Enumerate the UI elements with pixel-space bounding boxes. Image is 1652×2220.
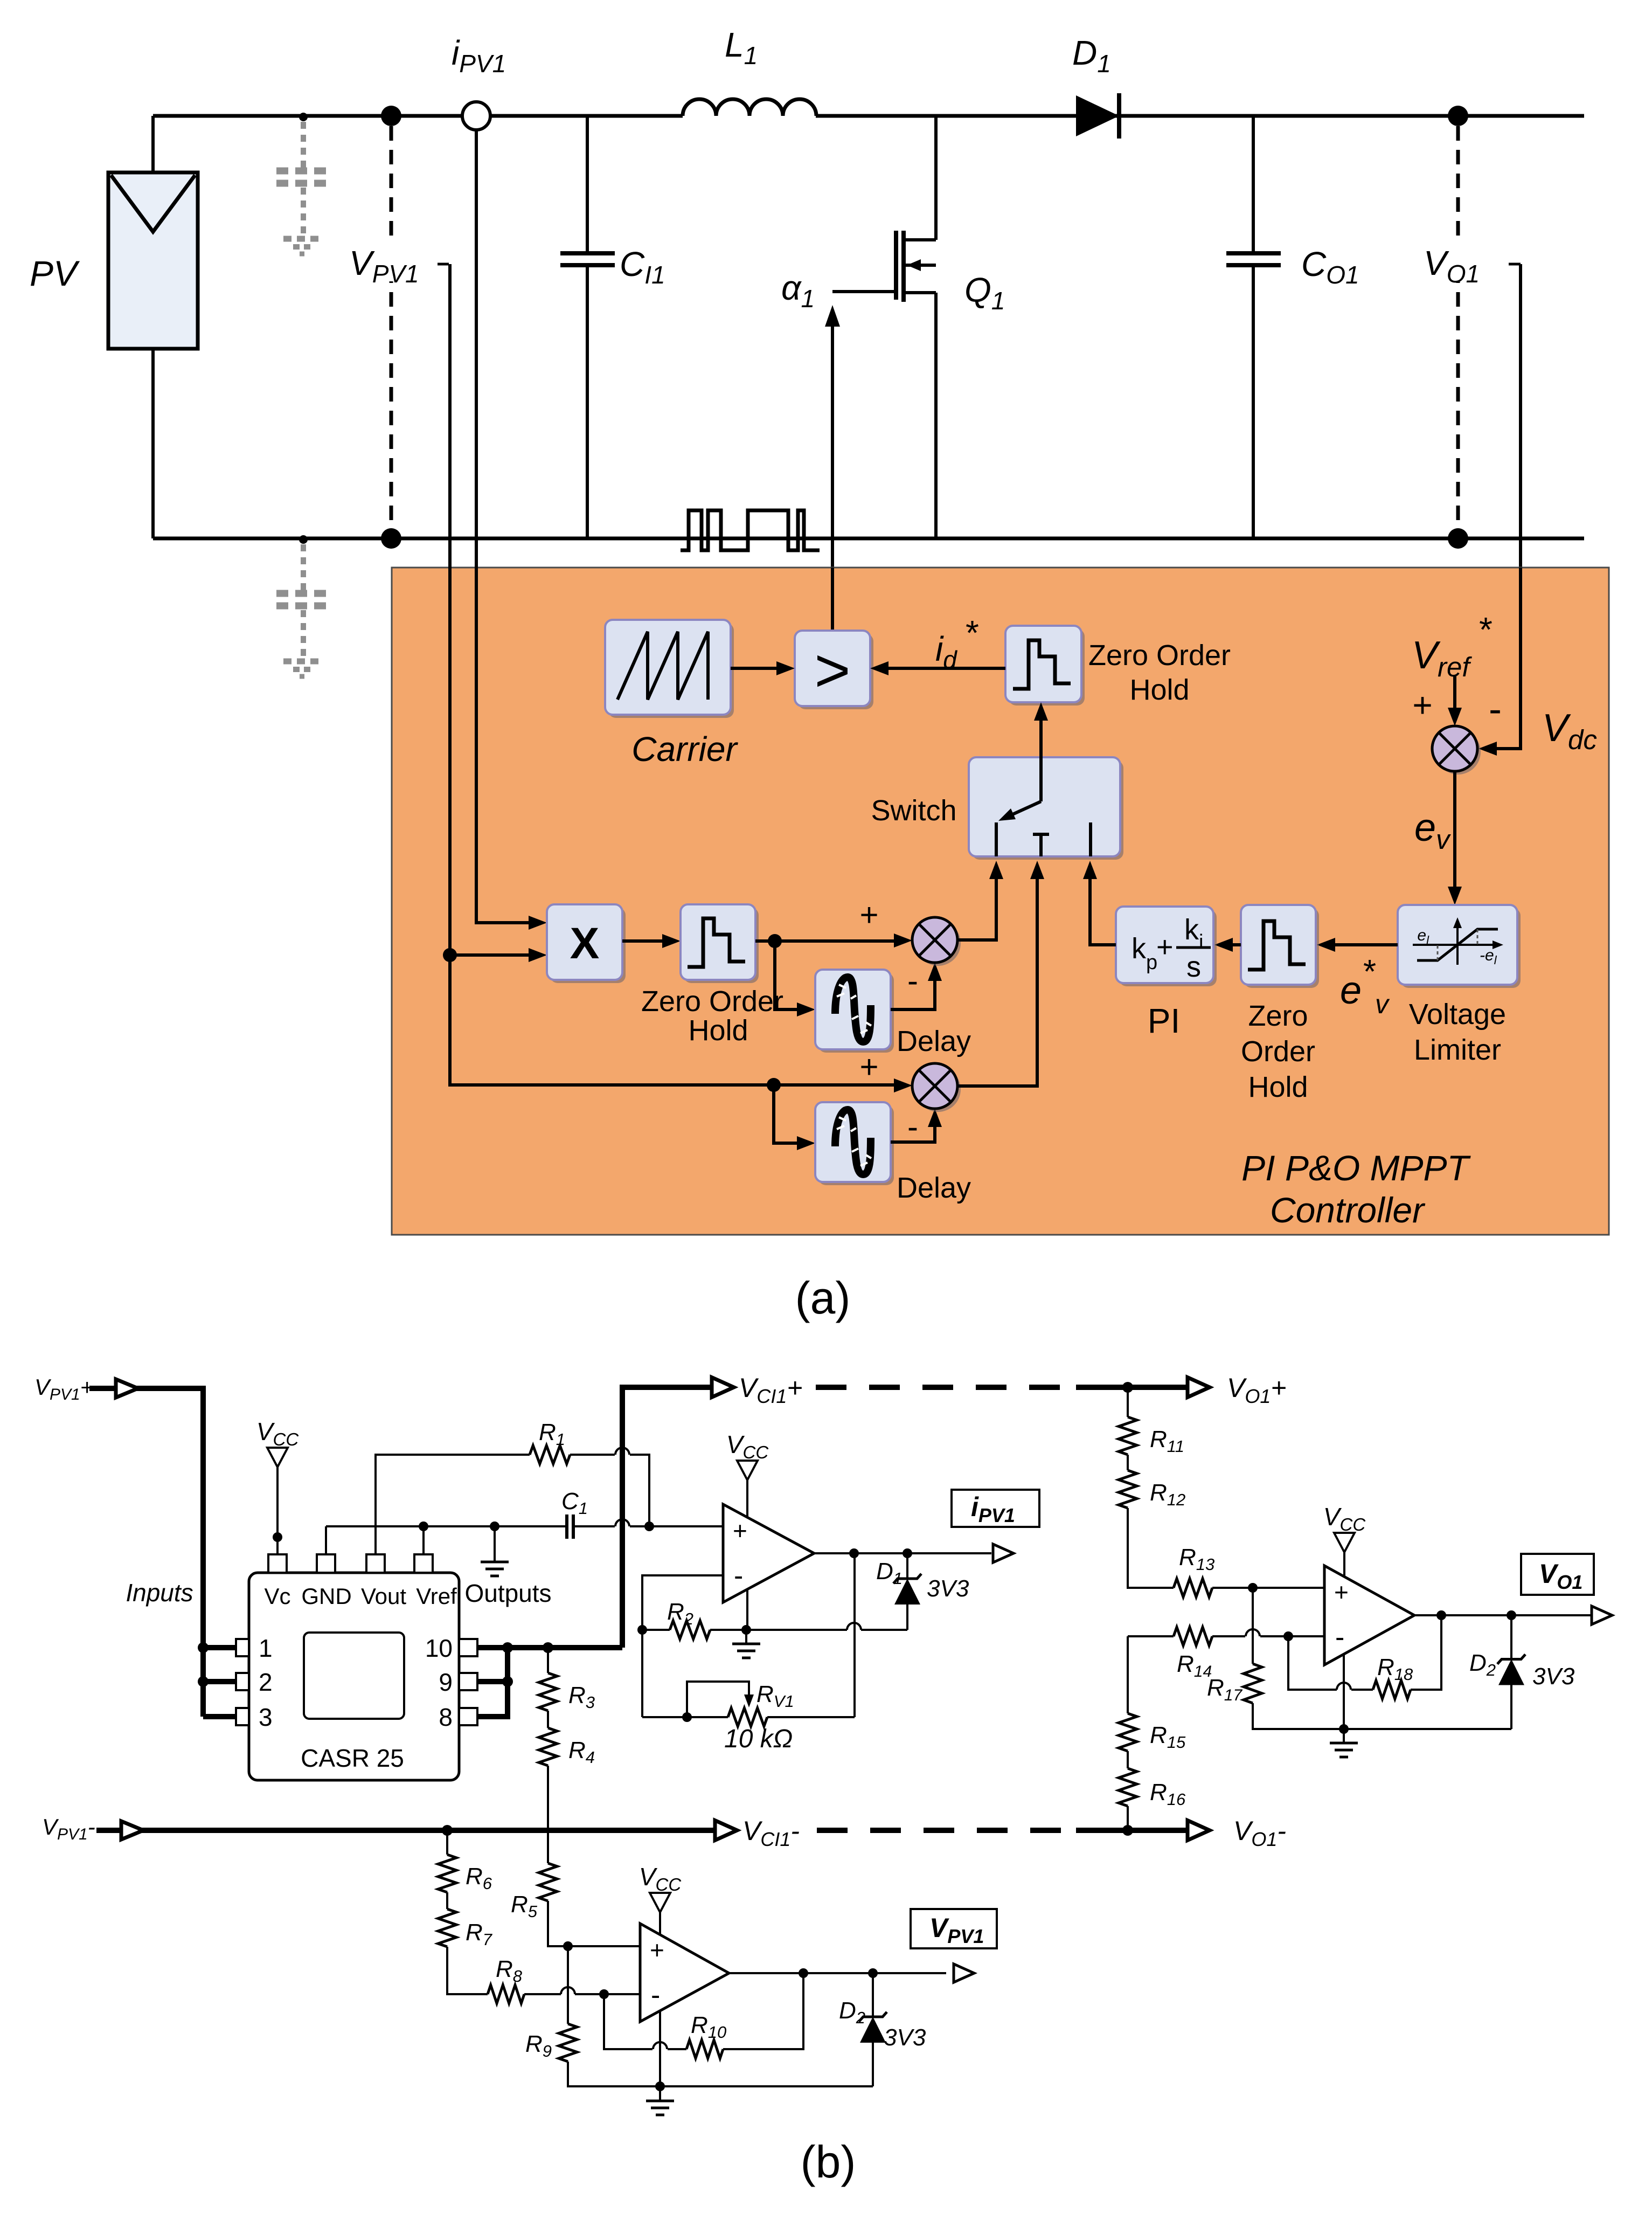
resistor R7 (438, 1909, 456, 1947)
wire C1 to + node (573, 1519, 649, 1526)
label alpha1 (781, 268, 815, 313)
svg-text:+: + (1156, 931, 1174, 963)
parasitic capacitance to ground (bottom, grey dashed) (276, 535, 330, 676)
label i_d* (935, 613, 979, 674)
input arrow V_PV1+ (116, 1379, 138, 1398)
label D1 (1072, 33, 1111, 78)
svg-text:*: * (1363, 953, 1376, 991)
label V_ref* (1412, 610, 1493, 682)
wire + node to opamp3 (1253, 1587, 1324, 1589)
svg-text:VPV1-: VPV1- (42, 1814, 95, 1843)
svg-text:R15: R15 (1150, 1722, 1186, 1752)
label V_O1 (1421, 243, 1521, 288)
label R18 (1377, 1654, 1413, 1684)
label i_PV1 (452, 33, 506, 78)
ground symbol (opamp3) (1330, 1729, 1358, 1757)
label R3 (568, 1682, 595, 1712)
resistor R13 (1174, 1579, 1212, 1597)
resistor R12 (1119, 1470, 1137, 1508)
svg-text:Carrier: Carrier (631, 730, 738, 769)
label V_PV1 (348, 243, 449, 288)
label R9 (525, 2031, 552, 2060)
label 3V3 (V_PV1 clamp) (884, 2024, 926, 2051)
resistor R5 (539, 1863, 557, 1901)
wire R14 line (1128, 1635, 1174, 1637)
svg-text:+: + (1334, 1578, 1349, 1606)
IC pin box Vref (414, 1554, 433, 1573)
wire Vcc to opamp2 (659, 1912, 661, 1935)
label V_PV1- (42, 1814, 95, 1843)
wire summer to limiter (e_v) (1448, 771, 1462, 905)
svg-text:GND: GND (301, 1583, 351, 1609)
Vcc symbol (opamp3) (1323, 1503, 1366, 1552)
caption (a) (795, 1272, 851, 1323)
wire R13 to + node (1212, 1587, 1253, 1589)
wire delay1 to summer1 minus (891, 963, 942, 1009)
svg-text:8: 8 (439, 1703, 453, 1731)
node opamp2 - junction (599, 1989, 609, 1999)
IC pin box 8 (459, 1708, 477, 1725)
label L1 (725, 25, 758, 70)
svg-text:-: - (907, 963, 918, 999)
svg-text:VCI1-: VCI1- (742, 1816, 800, 1850)
RV1 wiper loop (687, 1682, 754, 1717)
summer circle 1 (912, 917, 961, 966)
wire to delay 1 (775, 941, 815, 1016)
svg-text:VCC: VCC (639, 1863, 682, 1894)
wire top rail (153, 114, 1584, 118)
resistor R16 (1119, 1768, 1137, 1806)
label R11 (1150, 1426, 1184, 1456)
label R5 (511, 1891, 538, 1921)
label D2 (V_O1 clamp) (1469, 1650, 1496, 1679)
label Delay 1 (897, 1025, 971, 1057)
output arrow V_CI1- (715, 1821, 737, 1841)
wire R3-R4 (547, 1711, 549, 1728)
svg-text:k: k (1132, 932, 1147, 965)
inductor L1 (683, 99, 816, 116)
label D2 (V_PV1 clamp) (839, 1997, 865, 2027)
wire R18 to output (1411, 1615, 1441, 1690)
svg-text:R9: R9 (525, 2031, 552, 2060)
wire V_O1- solid (1076, 1828, 1186, 1833)
label R10 (691, 2012, 726, 2042)
node pin9 junction (502, 1676, 513, 1687)
wire PI to switch (1083, 861, 1116, 945)
labels pin numbers (259, 1634, 453, 1731)
svg-text:(b): (b) (801, 2136, 856, 2187)
svg-text:9: 9 (439, 1668, 453, 1696)
svg-text:3V3: 3V3 (1532, 1663, 1575, 1690)
switch block (969, 757, 1123, 860)
output arrow i_PV1 signal (993, 1544, 1014, 1562)
wire + node to opamp1 (649, 1525, 723, 1527)
svg-text:R16: R16 (1150, 1779, 1186, 1809)
svg-text:VO1-: VO1- (1233, 1816, 1286, 1850)
wire GND node line (326, 1525, 567, 1527)
IC pin box 10 (459, 1639, 477, 1656)
potentiometer RV1 (687, 1708, 855, 1726)
wire R10 to output (723, 1973, 803, 2049)
label Q1 (964, 271, 1005, 315)
svg-text:D2: D2 (1469, 1650, 1496, 1679)
wire opamp1 output (814, 1552, 991, 1554)
label Vc GND Vout Vref (264, 1583, 457, 1609)
label CO1 (1301, 245, 1359, 289)
node VO1+ junction (1448, 106, 1468, 126)
wire opamp3 V- to ground (1343, 1655, 1345, 1729)
wire R2 to ground node (710, 1629, 744, 1631)
wire - node to R18 (1288, 1636, 1373, 1690)
svg-text:Delay: Delay (897, 1172, 971, 1204)
svg-text:10 kΩ: 10 kΩ (724, 1725, 793, 1753)
wire R11 top (1127, 1387, 1129, 1417)
svg-text:3V3: 3V3 (884, 2024, 926, 2051)
svg-text:Zero: Zero (1248, 1000, 1308, 1032)
wire R9 to ground rail (568, 2062, 873, 2086)
node VO1- junction (1448, 528, 1468, 549)
label Zero Order Hold (power) (641, 985, 783, 1047)
svg-text:VCC: VCC (1323, 1503, 1366, 1534)
i_PV1 signal box (952, 1490, 1039, 1527)
carrier generator block (605, 620, 734, 718)
svg-text:k: k (1184, 914, 1199, 946)
ground symbol (opamp1) (732, 1630, 760, 1658)
node PV+ junction (381, 106, 401, 126)
svg-text:3: 3 (259, 1703, 273, 1731)
node ZOH output junction (768, 934, 782, 948)
resistor R14 (1174, 1627, 1212, 1645)
wire R11-R12 (1127, 1455, 1129, 1470)
svg-text:(a): (a) (795, 1272, 851, 1323)
resistor R18 (1373, 1680, 1411, 1699)
svg-text:Controller: Controller (1270, 1190, 1426, 1230)
node output junction A (799, 1968, 808, 1978)
svg-text:-: - (907, 1109, 918, 1145)
svg-text:D2: D2 (839, 1997, 865, 2027)
node opamp1 ground junction (741, 1625, 751, 1635)
label PI P&O MPPT Controller (1241, 1148, 1471, 1230)
wire - node to opamp3 (1288, 1635, 1324, 1637)
svg-text:Vc: Vc (264, 1583, 290, 1609)
svg-text:D1: D1 (1072, 33, 1111, 78)
wire R17 to ground rail (1253, 1703, 1511, 1729)
zero-order-hold block (power) (681, 904, 759, 983)
svg-text:Limiter: Limiter (1414, 1034, 1501, 1066)
svg-text:3V3: 3V3 (927, 1575, 969, 1602)
wire opamp1 - input (642, 1575, 723, 1717)
wire R4 to R5 (crosses V_CI1-) (547, 1766, 549, 1863)
label PV (30, 253, 80, 293)
ground symbol (C1 node) (481, 1526, 509, 1576)
wire Vref pin riser (422, 1526, 425, 1554)
svg-text:VO1+: VO1+ (1227, 1373, 1287, 1407)
label D1 (i_PV1 clamp) (876, 1558, 903, 1588)
wire PV to bottom rail (151, 347, 155, 538)
svg-text:VCI1+: VCI1+ (739, 1373, 803, 1407)
op-amp U1 (i_PV1) (723, 1504, 814, 1602)
ground symbol (opamp2) (646, 2086, 674, 2115)
label Zero Order Hold (top) (1088, 639, 1231, 706)
svg-text:+: + (650, 1936, 664, 1964)
PI P&O MPPT controller box (392, 568, 1609, 1235)
switch lever and contacts (996, 801, 1091, 856)
label PI (1148, 1001, 1180, 1040)
solar panel PV (108, 172, 198, 349)
svg-text:-: - (1489, 688, 1502, 731)
resistor R3 (539, 1673, 557, 1711)
zener diode D2 (V_O1 clamp) (1497, 1615, 1525, 1729)
wire Vcc to opamp1 (746, 1480, 748, 1518)
label V_PV1+ (34, 1374, 93, 1403)
transistor Q1 source wire (934, 293, 938, 538)
svg-text:L1: L1 (725, 25, 758, 70)
svg-text:RV1: RV1 (756, 1681, 794, 1711)
label R14 (1177, 1651, 1212, 1680)
node opamp3 - junction (1283, 1631, 1293, 1641)
label CASR 25 (301, 1744, 404, 1772)
node Vref junction (419, 1522, 428, 1531)
label R1 (539, 1419, 565, 1449)
svg-text:+: + (859, 897, 878, 933)
label e_v (1414, 806, 1451, 855)
node opamp3 + junction (1248, 1583, 1258, 1593)
wire carrier to comparator (731, 661, 795, 675)
resistor R9 (559, 2024, 577, 2062)
gate drive line alpha1 (from controller) (825, 305, 840, 631)
label R6 (466, 1863, 492, 1893)
wire V_PV1+ thick (89, 1388, 203, 1717)
svg-text:Voltage: Voltage (1409, 998, 1506, 1031)
IC pin box 9 (459, 1673, 477, 1690)
wire R8 to - node (524, 1987, 604, 1994)
svg-text:PI: PI (1148, 1001, 1180, 1040)
node opamp1 out junction A (849, 1548, 859, 1558)
resistor R10 (686, 2040, 723, 2058)
wire to pin 2 (203, 1679, 236, 1684)
node ground tap (490, 1522, 499, 1531)
delay block 1 (815, 970, 894, 1053)
wire R7 to R8 (447, 1947, 488, 1994)
wire + node to R17 (1252, 1588, 1254, 1664)
label V_O1- (1233, 1816, 1286, 1850)
node V_O1- junction (1122, 1825, 1133, 1836)
label R17 (1207, 1675, 1243, 1704)
wire delay2 to summer2 minus (891, 1109, 942, 1142)
IC pin box 1 (236, 1639, 249, 1656)
svg-text:-: - (734, 1560, 743, 1592)
resistor R11 (1119, 1417, 1137, 1455)
node opamp1 out junction B (903, 1548, 912, 1558)
wire opamp2 V- to ground (659, 2011, 661, 2086)
zener diode D1 (i_PV1 clamp) (893, 1553, 921, 1630)
Vcc symbol (opamp1) (726, 1430, 769, 1480)
op-amp U3 (V_O1) (1324, 1566, 1414, 1665)
label 10 kOhm (724, 1725, 793, 1753)
label R16 (1150, 1779, 1186, 1809)
wire summer1 to switch (957, 861, 1003, 940)
multiplier block X (547, 904, 626, 983)
transistor Q1 drain wire (934, 116, 938, 240)
wire Vcc to opamp3 (1343, 1552, 1345, 1577)
svg-text:R1: R1 (539, 1419, 565, 1449)
node pin10 junction A (502, 1642, 513, 1653)
IC pin box Vout (366, 1554, 385, 1573)
resistor R17 (1244, 1664, 1262, 1703)
wire R1 to + node (570, 1448, 649, 1526)
output arrow V_O1 signal (1592, 1606, 1612, 1624)
wire GND pin riser (325, 1526, 327, 1554)
wire R5 to opamp2 + (548, 1901, 640, 1946)
wire to pin 3 (203, 1714, 236, 1719)
svg-text:VPV1+: VPV1+ (34, 1374, 93, 1403)
node opamp2 + junction (563, 1941, 573, 1951)
node PV- junction (381, 528, 401, 549)
svg-text:PV: PV (30, 253, 80, 293)
node opamp2 ground junction (655, 2081, 665, 2091)
node opamp3 out junction A (1436, 1610, 1446, 1620)
node R6 tap (442, 1825, 453, 1836)
capacitor CO1 (1226, 253, 1281, 265)
dashed link V_CI1- to V_O1- (817, 1828, 1076, 1833)
svg-text:>: > (814, 636, 850, 705)
svg-text:-: - (651, 1980, 660, 2011)
wire ZOH to comparator (i_d*) (870, 661, 1005, 675)
wire switch to ZOH (1034, 702, 1048, 801)
wire ZOH to summer 1 (755, 933, 912, 948)
IC pin box 2 (236, 1673, 249, 1690)
resistor R8 (488, 1985, 524, 2003)
wire Vdc to summing (1479, 568, 1521, 756)
svg-text:R11: R11 (1150, 1426, 1184, 1456)
wire - node to R10 (604, 1994, 686, 2049)
node R2 junction (637, 1625, 647, 1635)
capacitor CI1 branch wire bottom (586, 266, 589, 538)
op-amp U2 (V_PV1) (640, 1924, 729, 2022)
svg-text:Outputs: Outputs (464, 1579, 551, 1607)
svg-text:R3: R3 (568, 1682, 595, 1712)
label RV1 (756, 1681, 794, 1711)
label R8 (496, 1956, 523, 1986)
wire R3 top (547, 1648, 549, 1673)
wire output bus up to V_CI1+ (622, 1387, 712, 1648)
wire pin8 to bus (477, 1648, 508, 1717)
label R12 (1150, 1479, 1185, 1509)
label minus (summer2) (907, 1109, 918, 1145)
svg-text:e: e (1340, 969, 1362, 1012)
wire pin9 to bus (477, 1679, 508, 1684)
svg-text:*: * (1479, 610, 1493, 649)
label R13 (1179, 1544, 1214, 1574)
wire opamp2 output (729, 1972, 946, 1974)
capacitor CI1 branch wire top (586, 116, 589, 252)
node lower row junction (767, 1078, 781, 1092)
svg-text:*: * (966, 613, 979, 652)
label CI1 (620, 245, 665, 289)
svg-text:R2: R2 (667, 1599, 693, 1628)
label R15 (1150, 1722, 1186, 1752)
label Voltage Limiter (1409, 998, 1506, 1066)
svg-text:CI1: CI1 (620, 245, 665, 289)
svg-text:Q1: Q1 (964, 271, 1005, 315)
V_O1 measurement dashed line (1456, 126, 1460, 528)
svg-text:2: 2 (259, 1668, 273, 1696)
current sensor i_PV1 circle (462, 102, 490, 130)
wire pin10 thick bus (477, 1645, 622, 1650)
wire PV to top rail (151, 116, 155, 174)
svg-text:CASR 25: CASR 25 (301, 1744, 404, 1772)
label Zero Order Hold 2 (1241, 1000, 1315, 1103)
label R7 (466, 1919, 493, 1949)
resistor R2 (642, 1621, 710, 1639)
svg-text:10: 10 (425, 1634, 453, 1662)
svg-text:Delay: Delay (897, 1025, 971, 1057)
Vcc symbol (opamp2) (639, 1863, 682, 1912)
IC pin box GND (317, 1554, 335, 1573)
svg-text:D1: D1 (876, 1558, 903, 1588)
voltage summer circle (1432, 726, 1481, 774)
label 3V3 (i_PV1 clamp) (927, 1575, 969, 1602)
node V_O1+ junction (1122, 1382, 1133, 1393)
svg-text:Inputs: Inputs (126, 1579, 193, 1607)
label C1 (561, 1488, 588, 1518)
wire RV1 to output (853, 1553, 856, 1717)
svg-text:s: s (1186, 951, 1201, 983)
node pin1 junction (198, 1642, 209, 1653)
wire ZOH2 to PI (1214, 938, 1241, 952)
wire alpha1 inside controller (831, 568, 834, 633)
wire R14 to R15 (1127, 1636, 1129, 1713)
output arrow V_O1- (1188, 1821, 1210, 1841)
svg-text:R17: R17 (1207, 1675, 1243, 1704)
svg-text:R6: R6 (466, 1863, 492, 1893)
resistor R4 (539, 1728, 557, 1766)
svg-text:Zero Order: Zero Order (641, 985, 783, 1018)
dashed link V_CI1+ to V_O1+ (816, 1385, 1076, 1390)
CASR 25 inner square (304, 1633, 404, 1719)
V_dc sense wire to controller (1519, 264, 1522, 749)
label Outputs (464, 1579, 551, 1607)
wire R6-R7 (446, 1892, 448, 1909)
svg-text:-: - (1335, 1622, 1344, 1653)
svg-text:α1: α1 (781, 268, 815, 313)
wire V_PV1 sense into controller (448, 264, 452, 955)
svg-text:Order: Order (1241, 1035, 1315, 1068)
wire Vcc to Vc pin (273, 1467, 282, 1554)
delay block 2 (815, 1102, 894, 1185)
summer circle 2 (912, 1063, 961, 1112)
output arrow V_PV1 signal (954, 1964, 974, 1982)
wire lower row to summer 2 (774, 1078, 912, 1092)
svg-text:+: + (733, 1517, 747, 1545)
wire V_O1+ solid (1076, 1385, 1189, 1390)
voltage limiter block (1398, 905, 1521, 988)
IC pin box Vc (268, 1554, 287, 1573)
wire V_PV1 lower row (450, 955, 774, 1085)
wire Vref to summing (1448, 675, 1462, 726)
svg-text:p: p (1146, 951, 1157, 974)
svg-text:R13: R13 (1179, 1544, 1214, 1574)
svg-text:Hold: Hold (688, 1014, 748, 1047)
capacitor C1 (567, 1514, 573, 1539)
svg-text:R8: R8 (496, 1956, 523, 1986)
svg-text:1: 1 (259, 1634, 273, 1662)
label R2 (667, 1599, 693, 1628)
svg-text:R12: R12 (1150, 1479, 1185, 1509)
svg-text:iPV1: iPV1 (452, 33, 506, 78)
zero-order-hold block 2 (1241, 905, 1319, 988)
V_PV1 signal box (911, 1909, 997, 1948)
